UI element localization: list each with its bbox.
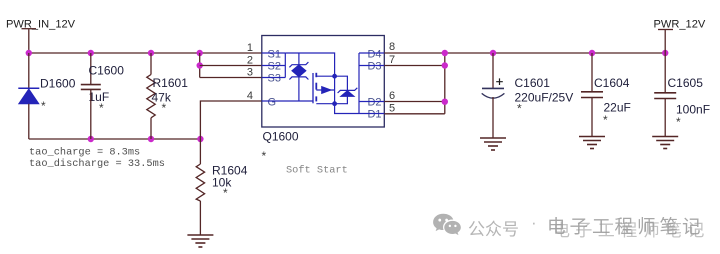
svg-text:D4: D4 [367, 49, 381, 61]
node junction C1605/PWR_12V [662, 50, 668, 56]
wire C1600 top lead [90, 53, 92, 84]
wire C1601 top lead [492, 53, 494, 88]
net PWR_IN_12V power label [6, 19, 76, 31]
svg-text:*: * [41, 99, 46, 113]
capacitor C1604 [581, 76, 631, 127]
mosfet Q1600 body box [262, 36, 385, 128]
node junction R1601 bottom [148, 136, 154, 142]
svg-text:*: * [99, 101, 104, 115]
wire C1605 top lead [664, 53, 666, 93]
wire pin7 D3 [384, 65, 445, 67]
wire pin5 D1 [384, 113, 445, 115]
node junction at S-tie top [197, 50, 203, 56]
wire C1604 top lead [591, 53, 593, 92]
wire inner D3 stub [359, 65, 384, 67]
svg-text:D2: D2 [367, 97, 381, 109]
svg-text:3: 3 [247, 67, 253, 79]
svg-text:C1605: C1605 [668, 76, 704, 90]
node junction D tie pin6 [442, 99, 448, 105]
svg-text:C1601: C1601 [515, 76, 551, 90]
svg-text:*: * [603, 113, 608, 127]
wire C1605 bottom lead [664, 99, 666, 136]
svg-text:*: * [162, 101, 167, 115]
ground for R1604 [187, 235, 213, 247]
svg-text:1: 1 [247, 42, 253, 54]
svg-text:tao_discharge = 33.5ms: tao_discharge = 33.5ms [29, 158, 165, 170]
svg-text:6: 6 [389, 90, 395, 102]
svg-text:D3: D3 [367, 61, 381, 73]
wire C1604 bottom lead [591, 98, 593, 136]
resistor R1604 [196, 139, 247, 201]
svg-text:4: 4 [247, 90, 253, 102]
node junction C1601 top [490, 50, 496, 56]
svg-text:Soft Start: Soft Start [286, 165, 348, 177]
watermark wechat icon [432, 212, 463, 239]
wire drain down to D1 level [335, 104, 359, 114]
capacitor C1600 [81, 64, 124, 116]
mosfet channel segments [315, 73, 317, 102]
wire pin8 D4 to output bus [384, 52, 665, 54]
ground for C1601 [480, 138, 506, 150]
capacitor C1605 [654, 76, 710, 129]
svg-text:R1601: R1601 [153, 76, 189, 90]
svg-text:D1600: D1600 [40, 77, 76, 91]
svg-text:PWR_12V: PWR_12V [654, 19, 706, 31]
svg-text:5: 5 [389, 103, 395, 115]
node junction at C1600 top [88, 50, 94, 56]
mosfet drain lead [316, 103, 334, 105]
ground for C1605 [652, 137, 678, 149]
node junction at D1600 top [26, 50, 32, 56]
svg-text:D1: D1 [367, 109, 381, 121]
watermark middle dot [531, 213, 537, 233]
svg-text:100nF: 100nF [676, 103, 710, 117]
mosfet body lead with arrow [316, 86, 334, 93]
svg-text:G: G [268, 97, 277, 109]
svg-text:*: * [223, 186, 228, 200]
svg-text:C1604: C1604 [594, 76, 630, 90]
svg-text:8: 8 [389, 41, 395, 53]
node inner source dot [332, 74, 337, 79]
svg-text:S2: S2 [268, 61, 281, 73]
wire R1601 bottom lead [150, 118, 152, 139]
wire inner D2 stub [359, 101, 384, 103]
mosfet source lead [316, 75, 334, 77]
wire body to source vertical [334, 76, 336, 104]
wire inner D tie [358, 53, 360, 114]
watermark text ghost layer [553, 216, 710, 241]
wire PWR_IN_12V stub [28, 29, 30, 53]
wire inner source top line [285, 53, 334, 76]
svg-text:C1600: C1600 [89, 64, 125, 78]
wire inner D1 stub [359, 113, 384, 115]
wire pin2 S2 [200, 65, 262, 67]
wire inner gate line [262, 100, 313, 102]
node junction C1604 top [589, 50, 595, 56]
wire bottom gate bus y=139 [29, 138, 201, 140]
svg-text:*: * [517, 102, 522, 116]
wire inner D4 stub [359, 52, 384, 54]
wire inner S tie [284, 53, 286, 78]
svg-text:*: * [262, 149, 267, 163]
capacitor C1601 polarized [482, 76, 574, 116]
resistor R1601 [147, 75, 188, 118]
wire R1601 top lead [150, 53, 152, 75]
zener TVS gate-source [289, 53, 308, 101]
wire C1601 bottom lead [492, 97, 494, 138]
wire pin6 D2 [384, 101, 445, 103]
ground for C1604 [579, 137, 605, 149]
wire inner S2 stub [262, 65, 286, 67]
svg-text:Q1600: Q1600 [263, 130, 299, 144]
svg-text:tao_charge = 8.3ms: tao_charge = 8.3ms [29, 147, 140, 159]
svg-text:2: 2 [247, 55, 253, 67]
diode D1600 [18, 77, 75, 114]
wire R1604 bottom lead [199, 201, 201, 235]
wire pin3 S3 [200, 77, 262, 79]
mosfet gate bar [312, 73, 314, 103]
svg-text:220uF/25V: 220uF/25V [515, 91, 574, 105]
node junction S2 tie [197, 62, 203, 68]
watermark text 公众号 light [468, 215, 519, 240]
node junction C1600 bottom [88, 136, 94, 142]
svg-text:*: * [676, 115, 681, 129]
wire C1600 bottom lead [90, 90, 92, 139]
svg-text:S1: S1 [268, 49, 281, 61]
node junction gate/R1604 [197, 136, 203, 142]
body diode of Q1600 [335, 76, 358, 104]
node junction D tie pin7 [442, 62, 448, 68]
watermark text dark layer [547, 213, 705, 239]
net PWR_12V power label [654, 19, 706, 54]
wire inner S1 stub [262, 52, 286, 54]
wire inner S3 stub [262, 77, 286, 79]
wire pin4 G [200, 101, 261, 139]
wire D1600 top lead [28, 53, 30, 88]
node inner drain dot [332, 101, 337, 106]
wire S2/S3 tie vertical [199, 53, 201, 78]
node junction D tie top [442, 50, 448, 56]
svg-text:S3: S3 [268, 73, 281, 85]
node junction at R1601 top [148, 50, 154, 56]
wire D pins tie vertical [444, 53, 446, 114]
svg-text:PWR_IN_12V: PWR_IN_12V [6, 19, 76, 31]
svg-text:7: 7 [389, 54, 395, 66]
wire D1600 bottom lead [28, 104, 30, 139]
wire top input bus y=53 [29, 52, 262, 54]
